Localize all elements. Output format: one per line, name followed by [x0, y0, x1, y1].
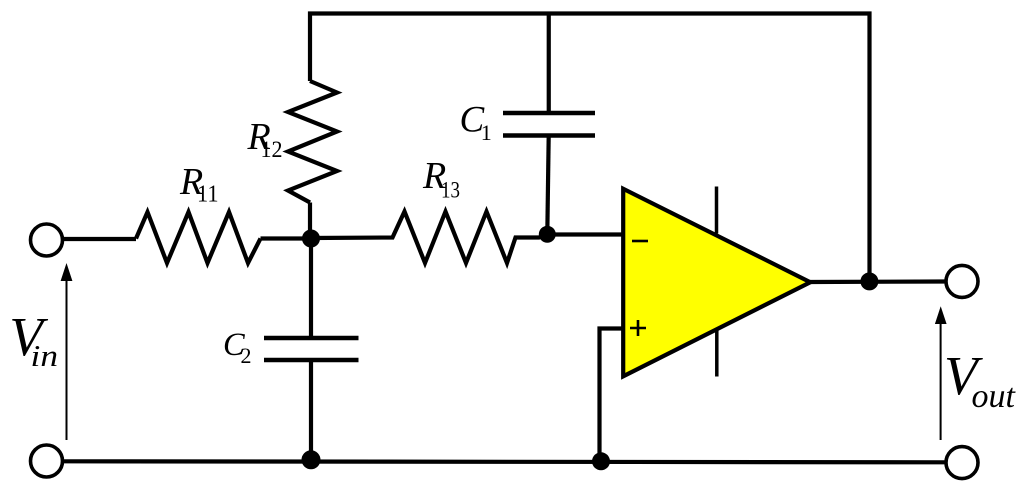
node A junction dot	[302, 230, 320, 248]
capacitor C2 plates	[264, 338, 359, 360]
node D junction dot (C2 to rail)	[302, 450, 321, 469]
input terminal top circle	[31, 224, 63, 256]
capacitor C1 plates	[503, 113, 595, 136]
output terminal top circle	[946, 265, 978, 297]
op-amp U1	[623, 189, 810, 376]
bottom ground rail wire	[63, 461, 945, 462]
node B junction dot	[539, 226, 556, 243]
resistor R12	[288, 81, 337, 203]
wire input to R11	[64, 237, 136, 241]
op-amp minus sign	[632, 240, 648, 243]
Vin arrow	[66, 279, 68, 440]
svg-text:11: 11	[197, 182, 219, 208]
wire op-amp output	[810, 279, 945, 284]
svg-text:12: 12	[261, 137, 283, 162]
op-amp top power pin	[715, 187, 719, 234]
input terminal bottom circle	[31, 445, 63, 477]
wire C2 to bottom rail	[309, 360, 313, 460]
output terminal bottom circle	[946, 447, 978, 479]
capacitor C1 stem top	[547, 14, 551, 114]
wire non-inverting input to ground rail	[600, 329, 624, 462]
wire C1 to node B	[547, 136, 548, 235]
op-amp plus sign	[630, 320, 646, 336]
wire R12 to node A	[308, 203, 312, 241]
wire R11 to node A	[261, 236, 312, 240]
resistor R11	[136, 212, 261, 263]
wire node B to op-amp inverting input	[547, 232, 623, 236]
svg-text:in: in	[31, 338, 59, 373]
op-amp bottom power pin	[715, 329, 719, 377]
Vout arrow	[940, 322, 942, 440]
node C output junction dot	[860, 272, 878, 290]
resistor R13	[311, 212, 547, 264]
svg-text:13: 13	[441, 177, 460, 203]
node E junction dot (op-amp + to rail)	[592, 452, 610, 470]
svg-text:out: out	[972, 378, 1017, 415]
svg-text:2: 2	[241, 343, 252, 368]
svg-text:1: 1	[481, 120, 492, 145]
wire top feedback rail	[310, 14, 870, 282]
capacitor C2 stem from node A	[309, 238, 313, 336]
